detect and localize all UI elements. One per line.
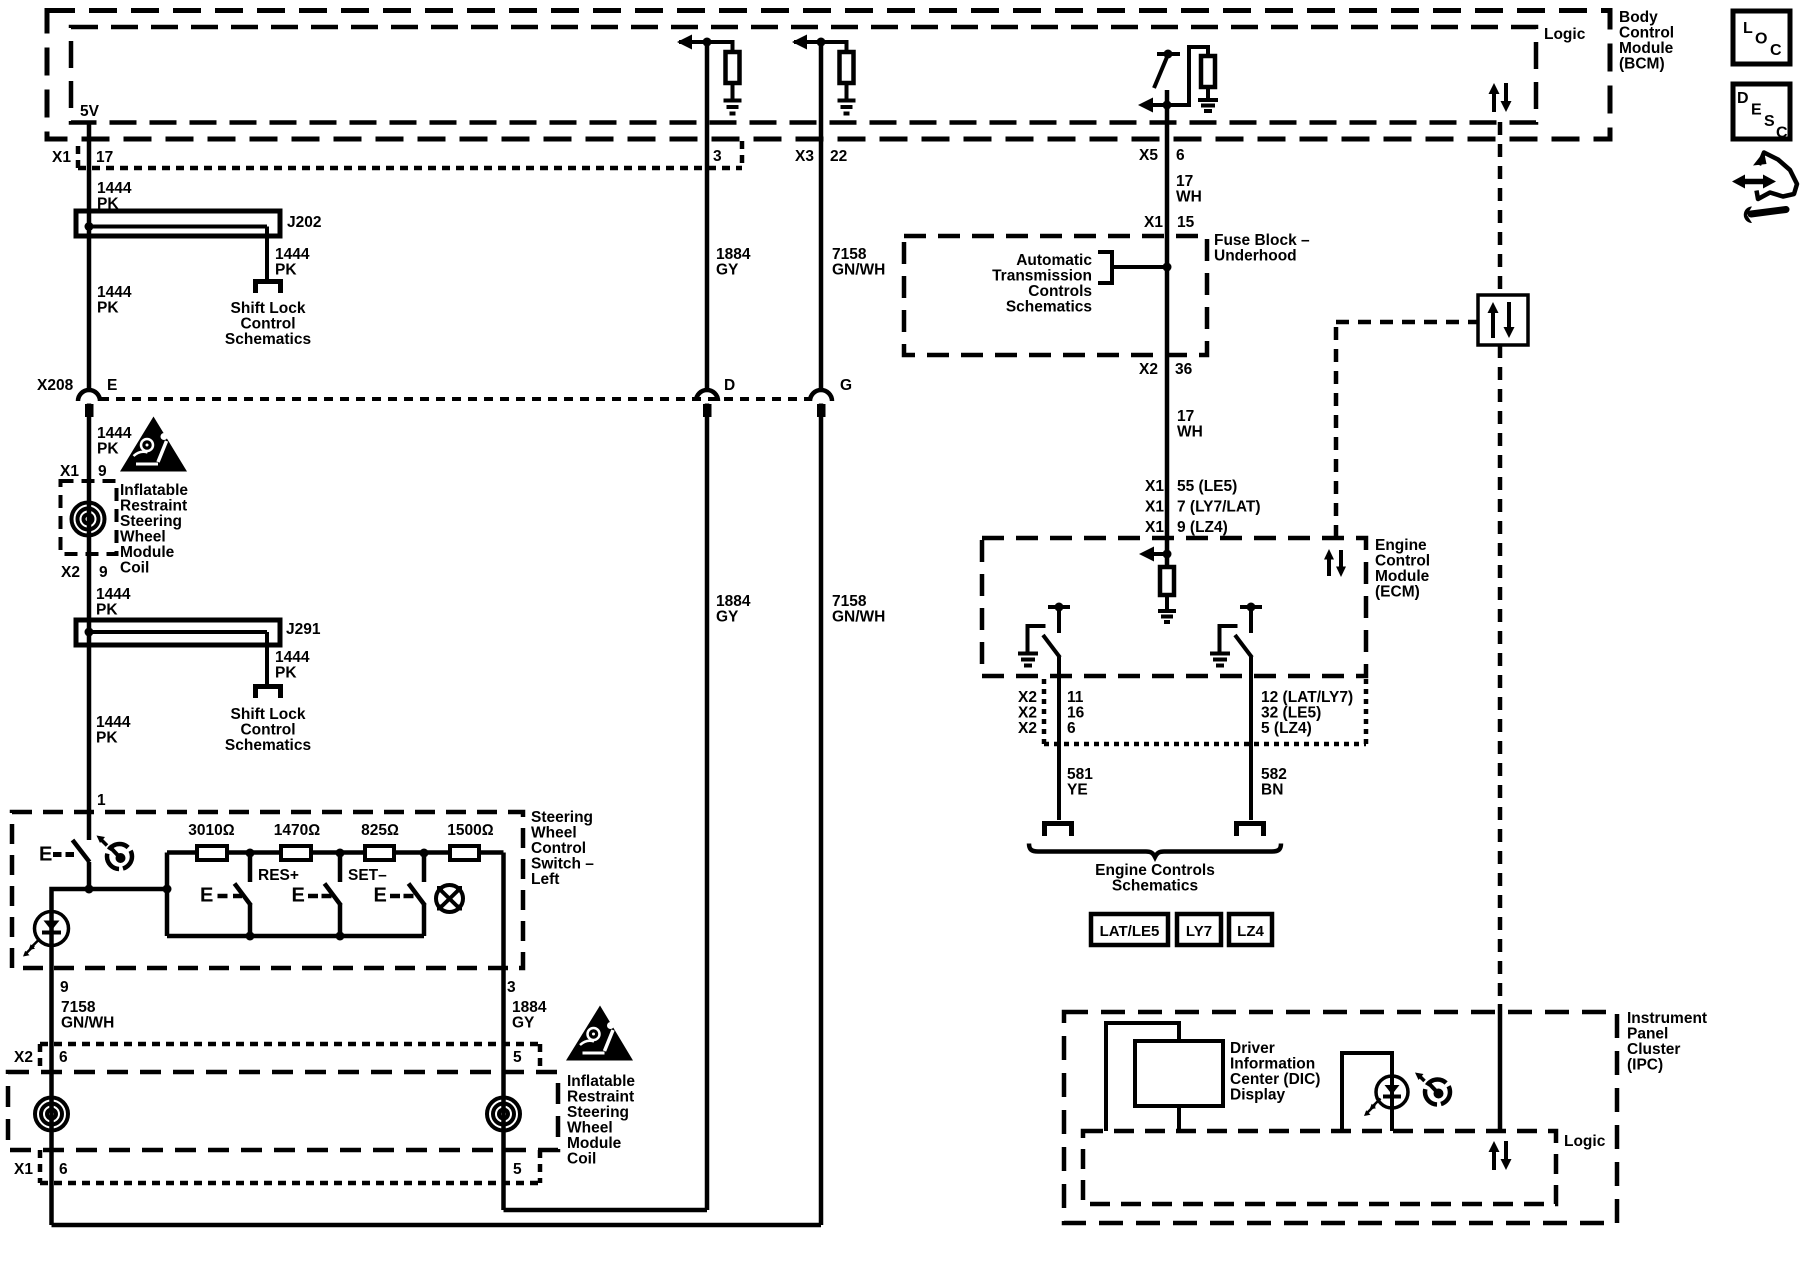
- svg-text:1444: 1444: [275, 246, 310, 263]
- svg-text:G: G: [840, 377, 852, 394]
- svg-text:GY: GY: [716, 262, 739, 279]
- svg-text:RES+: RES+: [258, 867, 299, 884]
- svg-text:Control: Control: [240, 722, 295, 739]
- svg-text:GY: GY: [716, 609, 739, 626]
- svg-text:1: 1: [97, 792, 106, 809]
- svg-text:17: 17: [96, 149, 113, 166]
- svg-text:9 (LZ4): 9 (LZ4): [1177, 519, 1228, 536]
- svg-text:Panel: Panel: [1627, 1026, 1668, 1043]
- svg-text:Engine: Engine: [1375, 537, 1427, 554]
- svg-text:5 (LZ4): 5 (LZ4): [1261, 720, 1312, 737]
- svg-text:D: D: [724, 377, 735, 394]
- svg-text:Engine Controls: Engine Controls: [1095, 862, 1215, 879]
- svg-text:1884: 1884: [512, 999, 547, 1016]
- svg-text:WH: WH: [1177, 424, 1203, 441]
- svg-text:BN: BN: [1261, 782, 1283, 799]
- svg-text:15: 15: [1177, 214, 1195, 231]
- svg-text:16: 16: [1067, 705, 1085, 722]
- svg-text:X1: X1: [14, 1161, 33, 1178]
- svg-text:E: E: [107, 377, 117, 394]
- svg-text:Automatic: Automatic: [1016, 252, 1092, 269]
- svg-text:3: 3: [713, 148, 722, 165]
- svg-text:PK: PK: [97, 441, 119, 458]
- svg-text:X2: X2: [1018, 689, 1037, 706]
- svg-text:E: E: [200, 885, 213, 907]
- svg-text:12 (LAT/LY7): 12 (LAT/LY7): [1261, 689, 1353, 706]
- svg-text:Logic: Logic: [1544, 26, 1586, 43]
- svg-text:Wheel: Wheel: [120, 529, 166, 546]
- svg-text:6: 6: [59, 1049, 68, 1066]
- svg-text:Module: Module: [567, 1135, 622, 1152]
- svg-text:Module: Module: [1375, 568, 1430, 585]
- svg-text:3010Ω: 3010Ω: [188, 822, 234, 839]
- svg-text:7 (LY7/LAT): 7 (LY7/LAT): [1177, 499, 1261, 516]
- svg-text:C: C: [1776, 125, 1788, 142]
- svg-text:Coil: Coil: [567, 1151, 596, 1168]
- svg-text:GN/WH: GN/WH: [61, 1015, 114, 1032]
- svg-text:582: 582: [1261, 766, 1287, 783]
- svg-text:S: S: [1764, 113, 1775, 130]
- svg-text:X2: X2: [1018, 720, 1037, 737]
- svg-text:Transmission: Transmission: [992, 268, 1092, 285]
- svg-text:Steering: Steering: [567, 1104, 629, 1121]
- svg-text:Wheel: Wheel: [531, 825, 577, 842]
- svg-text:Restraint: Restraint: [120, 498, 187, 515]
- svg-text:22: 22: [830, 148, 847, 165]
- svg-text:581: 581: [1067, 766, 1093, 783]
- svg-text:D: D: [1737, 90, 1749, 107]
- svg-text:Schematics: Schematics: [1112, 878, 1198, 895]
- svg-text:Steering: Steering: [531, 809, 593, 826]
- svg-text:Schematics: Schematics: [225, 331, 311, 348]
- svg-text:1444: 1444: [275, 649, 310, 666]
- svg-text:5: 5: [513, 1161, 522, 1178]
- svg-text:PK: PK: [275, 262, 297, 279]
- svg-text:X5: X5: [1139, 147, 1158, 164]
- svg-text:1884: 1884: [716, 246, 751, 263]
- svg-text:5V: 5V: [80, 103, 100, 120]
- svg-text:O: O: [1755, 31, 1767, 48]
- svg-text:6: 6: [1176, 147, 1185, 164]
- svg-text:Inflatable: Inflatable: [567, 1073, 635, 1090]
- svg-text:1444: 1444: [97, 180, 132, 197]
- svg-text:1444: 1444: [96, 714, 131, 731]
- svg-text:GY: GY: [512, 1015, 535, 1032]
- svg-text:J291: J291: [286, 621, 321, 638]
- svg-text:E: E: [39, 844, 52, 866]
- svg-text:6: 6: [1067, 720, 1076, 737]
- svg-text:7158: 7158: [832, 246, 867, 263]
- svg-text:6: 6: [59, 1161, 68, 1178]
- svg-text:E: E: [292, 885, 305, 907]
- svg-text:(BCM): (BCM): [1619, 56, 1665, 73]
- svg-text:Control: Control: [1619, 25, 1674, 42]
- svg-text:Schematics: Schematics: [1006, 299, 1092, 316]
- svg-text:YE: YE: [1067, 782, 1088, 799]
- svg-text:Schematics: Schematics: [225, 737, 311, 754]
- svg-text:PK: PK: [97, 300, 119, 317]
- svg-text:Left: Left: [531, 871, 559, 888]
- svg-text:Cluster: Cluster: [1627, 1041, 1680, 1058]
- svg-text:Controls: Controls: [1028, 283, 1092, 300]
- svg-text:32 (LE5): 32 (LE5): [1261, 705, 1321, 722]
- svg-text:X1: X1: [52, 149, 71, 166]
- svg-text:Underhood: Underhood: [1214, 248, 1297, 265]
- svg-text:J202: J202: [287, 214, 321, 231]
- svg-text:1444: 1444: [96, 586, 131, 603]
- svg-text:9: 9: [98, 463, 107, 480]
- svg-text:Fuse Block –: Fuse Block –: [1214, 232, 1310, 249]
- svg-text:Control: Control: [1375, 553, 1430, 570]
- svg-text:Shift Lock: Shift Lock: [231, 300, 306, 317]
- svg-text:1470Ω: 1470Ω: [274, 822, 320, 839]
- svg-text:Module: Module: [120, 544, 175, 561]
- svg-text:PK: PK: [96, 602, 118, 619]
- svg-text:Restraint: Restraint: [567, 1089, 634, 1106]
- svg-text:9: 9: [60, 979, 69, 996]
- svg-text:Switch –: Switch –: [531, 856, 594, 873]
- svg-text:LY7: LY7: [1186, 923, 1212, 940]
- svg-text:X2: X2: [1018, 705, 1037, 722]
- svg-text:X2: X2: [61, 564, 80, 581]
- svg-text:Steering: Steering: [120, 513, 182, 530]
- svg-text:Shift Lock: Shift Lock: [231, 706, 306, 723]
- svg-text:E: E: [374, 885, 387, 907]
- svg-text:Instrument: Instrument: [1627, 1010, 1707, 1027]
- svg-text:7158: 7158: [61, 999, 96, 1016]
- svg-text:X1: X1: [60, 463, 79, 480]
- svg-text:X1: X1: [1144, 214, 1163, 231]
- svg-text:SET–: SET–: [348, 867, 387, 884]
- svg-text:825Ω: 825Ω: [361, 822, 399, 839]
- svg-text:Display: Display: [1230, 1087, 1286, 1104]
- svg-text:Inflatable: Inflatable: [120, 482, 188, 499]
- svg-text:Body: Body: [1619, 9, 1658, 26]
- svg-text:X1: X1: [1145, 499, 1164, 516]
- svg-text:Driver: Driver: [1230, 1040, 1275, 1057]
- svg-text:9: 9: [99, 564, 108, 581]
- svg-text:Center (DIC): Center (DIC): [1230, 1071, 1320, 1088]
- svg-text:Control: Control: [240, 316, 295, 333]
- svg-text:Control: Control: [531, 840, 586, 857]
- svg-text:LZ4: LZ4: [1237, 923, 1264, 940]
- svg-text:LAT/LE5: LAT/LE5: [1100, 923, 1160, 940]
- svg-text:Module: Module: [1619, 40, 1674, 57]
- svg-text:X1: X1: [1145, 519, 1164, 536]
- svg-text:5: 5: [513, 1049, 522, 1066]
- svg-text:Coil: Coil: [120, 560, 149, 577]
- svg-text:1444: 1444: [97, 284, 132, 301]
- svg-text:Wheel: Wheel: [567, 1120, 613, 1137]
- svg-text:(IPC): (IPC): [1627, 1057, 1663, 1074]
- svg-text:X3: X3: [795, 148, 814, 165]
- svg-text:GN/WH: GN/WH: [832, 609, 885, 626]
- svg-text:1444: 1444: [97, 425, 132, 442]
- svg-text:1884: 1884: [716, 593, 751, 610]
- svg-text:36: 36: [1175, 361, 1193, 378]
- svg-text:3: 3: [507, 979, 516, 996]
- svg-text:C: C: [1770, 42, 1782, 59]
- svg-text:Logic: Logic: [1564, 1133, 1606, 1150]
- svg-text:1500Ω: 1500Ω: [447, 822, 493, 839]
- svg-text:17: 17: [1176, 173, 1193, 190]
- svg-text:E: E: [1751, 102, 1762, 119]
- svg-text:L: L: [1743, 20, 1753, 37]
- svg-text:X2: X2: [14, 1049, 33, 1066]
- svg-text:X208: X208: [37, 377, 74, 394]
- svg-text:PK: PK: [275, 665, 297, 682]
- svg-text:X1: X1: [1145, 478, 1164, 495]
- svg-text:(ECM): (ECM): [1375, 584, 1420, 601]
- svg-text:PK: PK: [96, 730, 118, 747]
- svg-text:11: 11: [1067, 689, 1084, 706]
- svg-text:PK: PK: [97, 196, 119, 213]
- svg-text:GN/WH: GN/WH: [832, 262, 885, 279]
- svg-text:Information: Information: [1230, 1056, 1315, 1073]
- svg-text:X2: X2: [1139, 361, 1158, 378]
- svg-text:WH: WH: [1176, 189, 1202, 206]
- svg-text:55 (LE5): 55 (LE5): [1177, 478, 1237, 495]
- svg-text:17: 17: [1177, 408, 1194, 425]
- svg-text:7158: 7158: [832, 593, 867, 610]
